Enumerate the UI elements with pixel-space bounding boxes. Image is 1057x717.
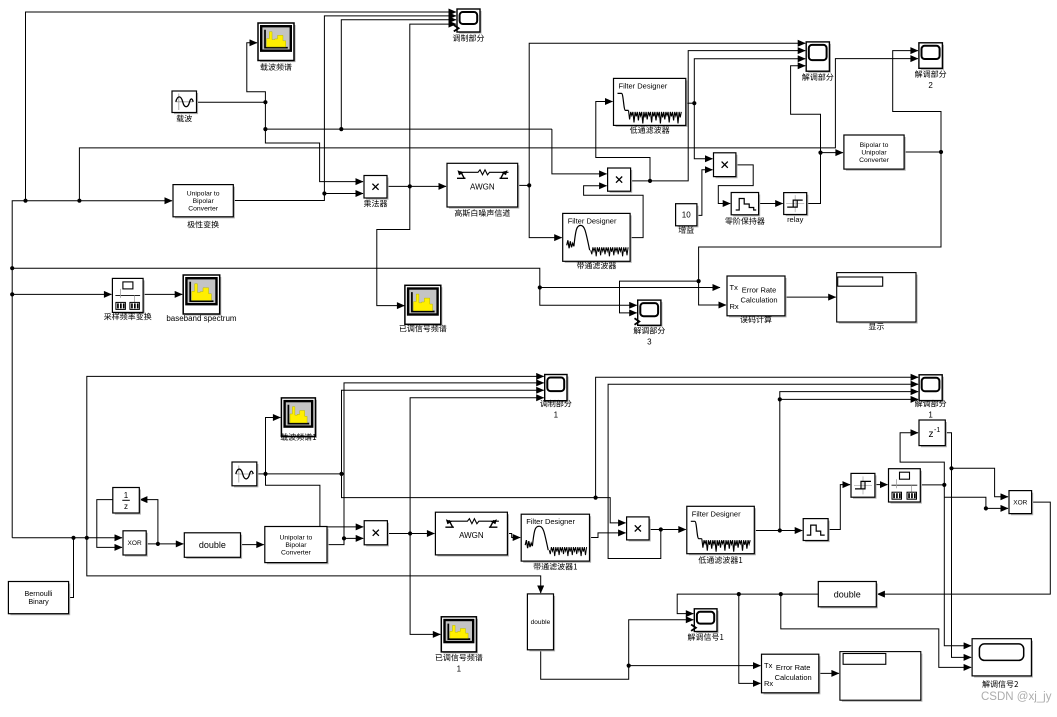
- signal scope 解调信号2: [974, 641, 1032, 677]
- relay1: [853, 475, 876, 498]
- product productC: [629, 519, 650, 541]
- wire bipolar2 to productB p2: [344, 537, 363, 539]
- wire error-rate to display: [785, 296, 836, 298]
- svg-text:double: double: [834, 589, 861, 599]
- wire bipolar2 to scope-mod1 port2: [344, 383, 544, 539]
- wire carrier1 up to scope-demod1 port1: [596, 377, 919, 497]
- wire AWGN to scope-demod port1: [529, 43, 805, 185]
- svg-text:double: double: [199, 540, 226, 550]
- filter 带通滤波器1 (bp): [523, 516, 590, 562]
- svg-text:Rx: Rx: [730, 302, 739, 311]
- wire carrier1 to productB p1: [266, 474, 364, 527]
- wire recovered2 down to scope-sig2 port1: [944, 485, 971, 646]
- svg-text:AWGN: AWGN: [459, 531, 484, 540]
- product productB: [366, 523, 388, 546]
- node bipolar junction: [322, 191, 326, 195]
- svg-text:Error Rate: Error Rate: [776, 663, 811, 672]
- node modulated junction: [408, 184, 412, 188]
- svg-text:double: double: [531, 619, 551, 626]
- node data junction d: [77, 199, 81, 203]
- node lowpass1 junction: [778, 528, 782, 532]
- node rate1-out junction: [942, 483, 946, 487]
- pulse block (zero-order hold 1): [805, 521, 829, 542]
- wire data2 to scope-mod1 port1: [87, 376, 544, 537]
- wire bipolar-unipolar out: [904, 151, 941, 153]
- error rate calculation 误码计算: [729, 278, 786, 317]
- wire gain10 to gain product p2: [697, 170, 713, 216]
- wire AWGN1 to bandpass1: [507, 534, 520, 538]
- wire pulse to relay1: [828, 485, 850, 530]
- error rate calculation 2: [764, 656, 820, 693]
- svg-text:Filter Designer: Filter Designer: [692, 509, 741, 518]
- wire unipolar out to product p2: [233, 194, 363, 201]
- filter 带通滤波器 (bp): [565, 215, 631, 262]
- wire delayed to xor2 p1: [952, 468, 1009, 497]
- unipolar-bipolar converter1: [267, 529, 328, 564]
- node delay-out junction: [949, 466, 953, 470]
- wire modulated to scope-mod port4: [410, 24, 456, 186]
- wire bernoulli out up: [68, 538, 74, 598]
- svg-text:Unipolar to: Unipolar to: [279, 534, 312, 541]
- wire data left riser to unipolar: [12, 201, 172, 538]
- rate transition 采样频率变换: [114, 280, 143, 313]
- svg-text:z: z: [929, 429, 934, 440]
- node xor2-p2 junction: [984, 506, 988, 510]
- wire unipolar1 out riser: [327, 538, 344, 544]
- svg-text:Calculation: Calculation: [740, 296, 777, 305]
- product 乘法器: [366, 178, 388, 199]
- wire sine carrier out: [197, 101, 266, 103]
- node awgn-out junction: [527, 183, 531, 187]
- wire relay out riser: [807, 153, 821, 204]
- zero-order hold 零阶保持器: [733, 195, 759, 216]
- node recovered junction: [939, 150, 943, 154]
- node relay-net junction: [818, 151, 822, 155]
- wire rate1 out: [920, 484, 944, 486]
- wire demod product out: [631, 180, 650, 182]
- wire lowpass1 out: [754, 530, 780, 532]
- wire 1/z out to xor1 p2: [97, 500, 122, 548]
- svg-text:Converter: Converter: [281, 549, 312, 556]
- wire carrier1 to spectrum1: [266, 418, 281, 474]
- wire productB out: [387, 533, 410, 535]
- svg-text:Unipolar: Unipolar: [861, 149, 887, 156]
- wire lowpass to gain product p1: [694, 103, 712, 159]
- node lowpass1 junction b: [778, 397, 782, 401]
- wire unit-delay out riser: [945, 433, 951, 469]
- node demod-product junction: [648, 179, 652, 183]
- wire lowpass1 riser: [779, 399, 781, 530]
- bipolar-unipolar converter: [846, 137, 905, 170]
- wire double-v out loop: [541, 650, 629, 679]
- svg-text:z: z: [124, 502, 128, 511]
- sine source 载波: [174, 93, 197, 113]
- scope demod-scope-b1 解调部分1: [921, 377, 943, 402]
- wire tx reference long line: [12, 268, 720, 287]
- wire data2 down to double-v: [87, 538, 541, 593]
- wire bandpass1 out to productC p2: [590, 533, 626, 538]
- node data junction b: [10, 292, 14, 296]
- wire demod product to lowpass: [596, 102, 650, 181]
- node double-out junction b: [779, 592, 783, 596]
- wire modulated2 to spectrum scope: [410, 534, 440, 635]
- wire relay1 to rate1: [875, 484, 888, 486]
- svg-text:1: 1: [928, 411, 933, 420]
- display 2: [842, 654, 922, 701]
- relay: [786, 195, 808, 216]
- wire bandpass out loop to demod product p2: [584, 186, 644, 238]
- unipolar-bipolar converter 极性变换: [175, 187, 234, 218]
- double-big converter: [820, 584, 877, 608]
- bernoulli binary source: [10, 584, 69, 615]
- node data2 junction b: [85, 536, 89, 540]
- wire carrier to scope-mod port3: [341, 20, 456, 129]
- node double-out junction a: [737, 592, 741, 596]
- wire modulated2 to scope-mod1 port4: [410, 398, 544, 534]
- node modulated2 junction: [408, 531, 412, 535]
- node tx2 junction: [627, 664, 631, 668]
- wire data line A to scope2 port2: [79, 59, 918, 201]
- svg-text:Bipolar: Bipolar: [285, 542, 307, 549]
- wire carrier1 into productC p1: [596, 498, 626, 523]
- wire bipolar data to scope-mod port2: [324, 16, 456, 194]
- node carrier1 junction b: [339, 472, 343, 476]
- wire delayed down to scope-sig2 port2: [952, 468, 972, 657]
- wire double-big out to scope-sig1 port1: [677, 594, 818, 614]
- wire to scope-demod1 port3: [780, 392, 918, 400]
- svg-text:Rx: Rx: [764, 679, 773, 688]
- node productC junction: [659, 527, 663, 531]
- svg-text:Filter Designer: Filter Designer: [526, 517, 575, 526]
- filter 低通滤波器 (lp): [616, 80, 687, 126]
- wire to scope-demod1 port4: [780, 398, 918, 400]
- wire AWGN out stub: [518, 184, 530, 186]
- wire xor1 feedback to 1/z: [140, 500, 158, 544]
- wire productC out: [649, 529, 661, 531]
- sine source carrier1: [234, 464, 258, 487]
- node carrier1 junction a: [263, 472, 267, 476]
- svg-text:Tx: Tx: [730, 283, 739, 292]
- node carrier junction b: [263, 127, 267, 131]
- filter 低通滤波器1 (lp): [689, 508, 755, 554]
- svg-text:3: 3: [647, 338, 652, 347]
- double1: [186, 535, 241, 558]
- wire demod product to scope-demod port2: [650, 51, 805, 181]
- wire rate1 to unit-delay Z: [900, 433, 944, 485]
- svg-text:Calculation: Calculation: [775, 673, 812, 682]
- wire carrier1 to scope-mod1 port3: [342, 390, 544, 474]
- node rx junction: [697, 279, 701, 283]
- rate transition 1: [891, 471, 922, 503]
- node data2 junction a: [71, 536, 75, 540]
- svg-text:Converter: Converter: [859, 157, 890, 164]
- product gain product: [716, 155, 737, 178]
- svg-text:relay: relay: [787, 215, 804, 224]
- svg-text:Bipolar: Bipolar: [193, 198, 215, 205]
- svg-text:AWGN: AWGN: [470, 182, 495, 191]
- node lowpass-out junction: [692, 101, 696, 105]
- node bipolar2 junction: [342, 536, 346, 540]
- wire lowpass1 to pulse block: [780, 530, 802, 532]
- wire data to rate-transition: [12, 293, 111, 295]
- node data junction c: [23, 199, 27, 203]
- wire recovered to scope3 port2: [620, 281, 699, 313]
- svg-text:2: 2: [928, 81, 933, 90]
- wire AWGN to bandpass filter: [529, 185, 562, 237]
- wire carrier right run: [265, 128, 552, 130]
- spectrum scope 已调信号频谱1: [443, 619, 477, 653]
- svg-text:XOR: XOR: [128, 540, 142, 547]
- node xor1-out junction: [156, 542, 160, 546]
- node carrier1 junction c: [594, 496, 598, 500]
- wire relay net to scope-demod port4: [791, 66, 821, 153]
- svg-text:1: 1: [124, 491, 129, 500]
- svg-text:Filter Designer: Filter Designer: [619, 81, 668, 90]
- svg-text:XOR: XOR: [1013, 499, 1027, 506]
- svg-text:10: 10: [682, 211, 691, 220]
- wire tx2 to scope-sig1 port2: [629, 620, 694, 666]
- wire productC to lowpass1: [661, 529, 686, 531]
- node data junction a: [10, 266, 14, 270]
- scope demod-scope2 解调部分2: [921, 45, 943, 69]
- xor2: [1011, 493, 1032, 515]
- spectrum scope 载波频谱: [260, 25, 295, 61]
- wire lowpass out stub: [686, 102, 695, 104]
- wire modulated2 to AWGN1: [410, 533, 434, 535]
- display 显示: [839, 275, 917, 323]
- wire error2 to display2: [819, 672, 839, 674]
- wire xor1 out to double1: [146, 543, 183, 545]
- spectrum scope 已调信号频谱: [407, 287, 442, 325]
- svg-text:baseband spectrum: baseband spectrum: [166, 314, 237, 323]
- product demod product: [610, 170, 632, 192]
- wire recovered bits to error2 Rx: [739, 594, 761, 683]
- scope mod-scope1 调制部分1: [547, 377, 568, 402]
- node tx junction: [538, 285, 542, 289]
- wire carrier into demod product p1: [552, 129, 607, 174]
- svg-text:Error Rate: Error Rate: [742, 286, 777, 295]
- scope mod-scope 调制部分: [459, 11, 481, 33]
- spectrum scope baseband spectrum: [185, 277, 220, 315]
- wire tx to scope3 port1: [540, 288, 637, 306]
- svg-text:Tx: Tx: [764, 661, 773, 670]
- wire double1 to unipolar1: [241, 544, 264, 546]
- svg-text:Converter: Converter: [188, 206, 219, 213]
- gain 增益: [678, 206, 698, 227]
- wire carrier to spectrum scope: [247, 43, 266, 102]
- wire carrier down to product p1: [265, 102, 363, 181]
- wire tx2 to error2 Tx: [629, 665, 761, 667]
- wire zoh to relay: [759, 203, 783, 205]
- node carrier junction c: [339, 127, 343, 131]
- wire carrier1 right run: [266, 473, 342, 475]
- xor1: [125, 533, 147, 556]
- wire data line into xor p1: [12, 537, 122, 539]
- wire modulated to spectrum scope: [377, 186, 410, 305]
- svg-text:Bipolar to: Bipolar to: [860, 142, 889, 149]
- svg-text:Unipolar to: Unipolar to: [187, 191, 220, 198]
- svg-text:Filter Designer: Filter Designer: [568, 216, 617, 225]
- scope demod-scope3 解调部分3: [640, 302, 662, 326]
- spectrum scope 载波频谱1: [283, 400, 316, 437]
- wire recovered bits to scope-sig2 port3: [781, 594, 971, 667]
- svg-text:1: 1: [554, 411, 559, 420]
- wire data to scope-mod port1: [26, 12, 457, 201]
- wire recovered to scope2 port1: [893, 51, 941, 152]
- AWGN channel 1: [437, 514, 508, 556]
- wire productC loop to scope-demod1 port2: [608, 384, 918, 558]
- scope demod-scope 解调部分: [808, 44, 830, 72]
- wire xor2 out to double-big: [877, 502, 1050, 594]
- svg-text:-1: -1: [934, 427, 940, 434]
- AWGN channel 高斯白噪声信道: [449, 165, 519, 208]
- wire product out to AWGN: [387, 185, 446, 187]
- wire gain product out to zoh: [718, 165, 753, 204]
- wire lowpass to scope-demod port3: [694, 59, 805, 103]
- wire rate-transition to baseband spectrum: [143, 293, 182, 295]
- wire recovered2 to xor2 p2: [944, 497, 1008, 508]
- unit delay Z^-1: [921, 422, 946, 446]
- wire relay net to bipolar converter: [821, 152, 843, 154]
- wire sine1 out: [257, 473, 266, 475]
- svg-text:Binary: Binary: [28, 597, 49, 606]
- svg-text:1: 1: [457, 665, 462, 674]
- scope signal-scope1 解调信号1: [696, 611, 718, 633]
- unit delay 1/z: [115, 490, 140, 514]
- wire recovered to error-rate Rx: [699, 152, 941, 305]
- double-v converter: [529, 596, 554, 651]
- svg-text:CSDN @xj_jy: CSDN @xj_jy: [981, 691, 1052, 703]
- node carrier junction a: [263, 100, 267, 104]
- wire carrier1 down long run: [342, 474, 596, 498]
